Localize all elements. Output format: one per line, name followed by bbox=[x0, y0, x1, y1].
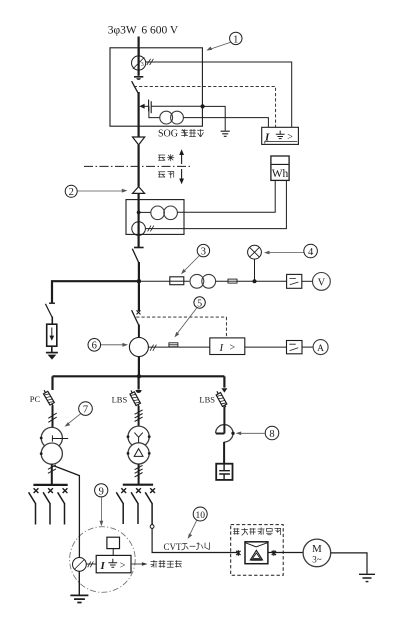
wire PC to transformer bbox=[52, 406, 54, 428]
svg-text:SOG: SOG bbox=[158, 129, 178, 140]
fuse PF for VT bbox=[170, 277, 184, 285]
svg-text:3φ3W 6 600 V: 3φ3W 6 600 V bbox=[108, 25, 179, 37]
node junction dot VT tap bbox=[137, 211, 141, 215]
wire tap to capacitor bbox=[144, 105, 149, 107]
motor M bbox=[303, 539, 331, 567]
node 3 callout circle bbox=[197, 244, 209, 256]
switch PAS contact bar bbox=[134, 76, 143, 78]
wire main line below switch bbox=[138, 92, 140, 137]
node junction dot at box edge bbox=[201, 104, 205, 108]
transformer T1 winding tap marks bbox=[52, 435, 68, 441]
svg-text:LBS: LBS bbox=[199, 394, 215, 404]
test terminal on VT secondary bbox=[228, 279, 237, 283]
wire lamp tap bbox=[254, 259, 256, 281]
detail boundary dash circle bbox=[70, 527, 136, 593]
wire VT secondary to Wh bbox=[177, 180, 275, 212]
arrester LA box bbox=[47, 324, 57, 346]
wire arrow from 8 to reactor bbox=[236, 432, 265, 436]
wire main line into VCT bbox=[138, 193, 140, 247]
CT metering on main line bbox=[132, 222, 146, 236]
node 10 callout circle bbox=[193, 507, 207, 521]
label douryoku seigyobannai bbox=[234, 528, 239, 534]
CT secondary tick marks bbox=[150, 345, 156, 351]
wire LA lead bbox=[51, 317, 53, 325]
ZCT secondary tick marks bbox=[88, 562, 94, 568]
svg-text:I: I bbox=[100, 560, 106, 572]
wire T2 secondary bbox=[138, 464, 140, 485]
svg-text:3: 3 bbox=[141, 62, 144, 68]
transformer T2 delta mark bbox=[134, 449, 143, 457]
terminal x mark left bbox=[236, 550, 240, 556]
contact LBS middle receiver bbox=[136, 390, 142, 393]
switch LV feeder 6 motor feeder bbox=[150, 488, 155, 493]
relay SOG ground-fault box bbox=[262, 127, 299, 144]
wire arrow from 10 to CVT cable bbox=[188, 520, 197, 539]
breaker CB blade bbox=[132, 310, 139, 325]
wire VS to voltmeter bbox=[302, 280, 313, 282]
starter delta coil symbol bbox=[250, 550, 262, 560]
switch LV feeder 1 bbox=[34, 488, 39, 493]
wire LA to earth bbox=[51, 346, 53, 352]
capacitor SC box bbox=[216, 464, 232, 480]
panel dashed control box bbox=[231, 525, 284, 576]
svg-text:4: 4 bbox=[308, 247, 314, 258]
switch DS for LA contact bar bbox=[49, 302, 55, 304]
node 4 callout circle bbox=[304, 244, 318, 258]
breaker CB cross mark bbox=[137, 310, 141, 314]
switch LV feeder 5 bbox=[136, 488, 141, 493]
wire arrow from 1 to PAS box bbox=[206, 42, 230, 50]
conductor tick marks LV middle bbox=[135, 465, 143, 477]
wire VT tap lead bbox=[139, 211, 152, 213]
wire AS to ammeter bbox=[302, 346, 313, 348]
wire earth lead to ground bbox=[78, 571, 80, 595]
ground B-type earth bbox=[70, 595, 88, 602]
transformer T2 three phase bbox=[128, 426, 149, 447]
conductor tick marks LV left bbox=[48, 465, 56, 473]
wire dashed CB trip linkage bbox=[136, 317, 226, 338]
wire VT secondary row3 bbox=[216, 280, 287, 282]
meter voltmeter V bbox=[313, 273, 331, 291]
svg-text:7: 7 bbox=[83, 405, 88, 416]
switch DS contact bar bbox=[134, 247, 144, 249]
switch LV feeder 2 bbox=[48, 488, 53, 493]
wire ZCT secondary to ELR bbox=[86, 563, 96, 565]
transformer VT row3 bbox=[190, 274, 204, 288]
node 2 callout circle bbox=[65, 185, 77, 197]
wire VT tap bbox=[149, 106, 160, 117]
svg-text:2: 2 bbox=[69, 187, 74, 198]
label okugai bbox=[159, 155, 165, 160]
wire LBS to transformer T2 bbox=[138, 406, 140, 426]
relay ELR ground fault box bbox=[96, 555, 131, 572]
switch DS blade bbox=[132, 249, 139, 263]
wire motor to ground bbox=[331, 553, 367, 574]
wire VT secondary to relay bbox=[183, 118, 268, 128]
wire middle branch drop bbox=[138, 376, 140, 389]
node 1 callout circle bbox=[230, 32, 242, 44]
wire arrow from 6 to CT bbox=[101, 343, 128, 347]
node 9 callout circle bbox=[95, 484, 108, 497]
capacitor SC plates bbox=[219, 464, 230, 480]
wire arrow from 3 to fuse bbox=[181, 256, 200, 275]
VCT metering box bbox=[126, 200, 184, 235]
transformer T1 single phase bbox=[41, 427, 62, 448]
ZCT in PAS bbox=[132, 56, 146, 70]
wire LV bus left bbox=[33, 484, 67, 486]
svg-text:I: I bbox=[219, 342, 225, 354]
wire arrow from 7 to T1 bbox=[65, 414, 81, 427]
node 8 callout circle bbox=[265, 426, 279, 440]
switch PAS blade bbox=[132, 81, 139, 94]
terminal box above ELR bbox=[107, 537, 120, 548]
node main junction dot bbox=[137, 279, 141, 283]
switch LV feeder 3 bbox=[63, 488, 68, 493]
ground motor earth bbox=[359, 574, 375, 581]
switch DS for LA blade bbox=[45, 304, 52, 318]
svg-text:3: 3 bbox=[201, 247, 206, 258]
fuse LBS middle blade bbox=[131, 391, 139, 407]
svg-text:Wh: Wh bbox=[272, 168, 289, 180]
wire terminal to ELR bbox=[112, 549, 114, 556]
ZCT secondary tick marks bbox=[147, 59, 154, 65]
svg-text:CVT: CVT bbox=[164, 542, 183, 552]
svg-text:1: 1 bbox=[233, 34, 238, 45]
wire to earth of PAS bbox=[203, 106, 226, 130]
wire left branch drop bbox=[51, 376, 53, 390]
svg-text:V: V bbox=[318, 277, 326, 288]
cable head lower triangle bbox=[133, 187, 145, 194]
conductor tick marks HV middle bbox=[135, 410, 143, 422]
label seigyo dengen bbox=[151, 560, 157, 567]
ground LA earth bbox=[46, 352, 58, 354]
wire reactor to capacitor bbox=[223, 442, 225, 464]
label okunai bbox=[159, 172, 165, 177]
svg-text:3~: 3~ bbox=[312, 555, 322, 565]
wire main line through PAS bbox=[138, 48, 140, 76]
relay OCR box bbox=[210, 338, 245, 355]
wire motor feeder to control panel bbox=[152, 528, 237, 552]
wire main line outdoor section bbox=[138, 145, 140, 187]
label kanji kinoutsuki bbox=[182, 130, 188, 137]
switch AS ammeter changeover bbox=[287, 341, 303, 354]
contact LBS right receiver bbox=[221, 388, 227, 392]
wire HV distribution bus bbox=[53, 375, 225, 377]
node junction dot reactor bbox=[231, 432, 234, 435]
node bus junction dot bbox=[137, 374, 141, 378]
wire arrow from 5 to test terminal bbox=[174, 308, 196, 337]
PAS enclosure box bbox=[110, 48, 202, 126]
svg-text:5: 5 bbox=[197, 298, 202, 309]
cable head upper triangle bbox=[133, 137, 145, 145]
svg-text:M: M bbox=[312, 543, 322, 555]
wire main line below CT bbox=[138, 357, 140, 378]
wire starter to motor bbox=[268, 552, 303, 554]
boundary dash-dot line bbox=[84, 165, 192, 167]
reactor SR series bbox=[216, 425, 233, 442]
starter Y-delta box bbox=[245, 542, 268, 564]
wire capacitor to box edge bbox=[151, 105, 202, 107]
svg-text:8: 8 bbox=[269, 429, 274, 440]
transformer VT control supply bbox=[160, 111, 173, 124]
wire dashed SOG linkage bbox=[134, 86, 276, 127]
switch LV feeder 4 bbox=[121, 488, 126, 493]
wire LA branch bbox=[52, 281, 139, 303]
transformer VT metering bbox=[151, 206, 165, 220]
ground PAS earth bbox=[221, 131, 230, 136]
wire CB to CT bbox=[138, 325, 140, 339]
test terminal on CT secondary bbox=[169, 343, 178, 347]
capacitor surge element bbox=[148, 100, 150, 112]
arrow boundary down bbox=[181, 169, 183, 180]
wire VT branch row bbox=[140, 280, 189, 282]
wire ELR to control power bbox=[131, 562, 148, 566]
wire right branch drop bbox=[223, 376, 225, 387]
conductor tick marks HV left bbox=[48, 413, 56, 422]
transformer T2 star mark bbox=[134, 433, 142, 443]
switch VS voltmeter changeover bbox=[287, 274, 302, 288]
svg-text:6: 6 bbox=[92, 341, 97, 352]
arrow boundary up bbox=[181, 154, 183, 165]
ZCT earth leakage bbox=[73, 558, 87, 572]
wire main line to junction bbox=[138, 262, 140, 281]
wire arrow from 4 to lamp bbox=[264, 251, 304, 255]
terminal x mark right bbox=[272, 550, 276, 556]
wire OCR to AS bbox=[245, 346, 287, 348]
wire arrow from 9 to detail circle bbox=[100, 497, 104, 526]
svg-text:PC: PC bbox=[30, 394, 41, 404]
fuse PC cutout blade bbox=[44, 390, 53, 406]
wire LV bus middle bbox=[123, 484, 153, 486]
meter Wh box bbox=[271, 156, 289, 180]
wire CT secondary to OCR bbox=[148, 346, 209, 348]
fuse LBS right blade bbox=[217, 391, 226, 407]
wire T1 secondary bbox=[51, 464, 53, 485]
svg-text:>: > bbox=[230, 342, 236, 353]
wire incoming feeder bbox=[138, 37, 140, 57]
junction tap arrow on main line bbox=[139, 104, 144, 109]
svg-text:LBS: LBS bbox=[112, 394, 128, 404]
meter ammeter A bbox=[313, 340, 328, 355]
node 6 callout circle bbox=[88, 339, 101, 352]
wire main line to CB bbox=[138, 281, 140, 311]
wire arrow from 2 to cable head bbox=[77, 189, 127, 193]
CT main circuit bbox=[129, 338, 148, 357]
wire earth lead from T1 neutral bbox=[53, 466, 79, 558]
arrester arrow inside bbox=[51, 328, 53, 338]
node 7 callout circle bbox=[79, 402, 93, 416]
svg-text:A: A bbox=[317, 344, 324, 354]
node 5 callout circle bbox=[194, 297, 205, 308]
svg-text:>: > bbox=[120, 560, 126, 571]
node connection circle on motor feeder bbox=[150, 525, 154, 529]
CT secondary tick marks bbox=[148, 226, 154, 232]
lamp pilot light bbox=[248, 245, 262, 259]
svg-text:9: 9 bbox=[99, 486, 104, 497]
wire ZCT secondary to SOG relay bbox=[146, 62, 292, 127]
wire CT secondary to Wh bbox=[145, 180, 286, 228]
svg-text:10: 10 bbox=[195, 511, 205, 521]
node junction lamp tap bbox=[253, 279, 257, 283]
